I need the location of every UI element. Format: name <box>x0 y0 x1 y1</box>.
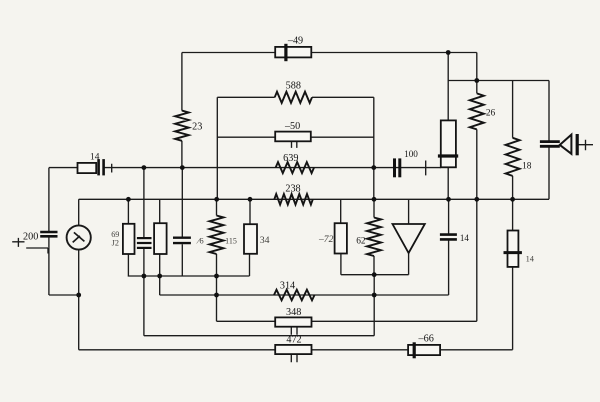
svg-text:100: 100 <box>404 149 418 159</box>
svg-text:14: 14 <box>460 233 470 243</box>
svg-text:62: 62 <box>356 237 366 247</box>
svg-text:238: 238 <box>285 184 300 195</box>
svg-text:–49: –49 <box>287 36 303 47</box>
svg-text:348: 348 <box>286 307 301 318</box>
svg-text:–66: –66 <box>418 334 434 345</box>
svg-text:588: 588 <box>286 81 301 92</box>
svg-text:–50: –50 <box>284 121 300 132</box>
svg-text:115: 115 <box>225 237 237 246</box>
svg-text:314: 314 <box>280 281 295 292</box>
svg-text:18: 18 <box>522 162 532 172</box>
svg-text:14: 14 <box>526 255 535 264</box>
svg-text:14: 14 <box>90 153 100 163</box>
svg-text:472: 472 <box>286 335 301 346</box>
svg-text:200: 200 <box>23 231 38 242</box>
svg-text:639: 639 <box>283 153 298 164</box>
svg-text:26: 26 <box>486 109 496 119</box>
svg-text:34: 34 <box>260 235 270 246</box>
svg-text:23: 23 <box>192 122 202 133</box>
svg-text:J2: J2 <box>112 238 119 247</box>
svg-text:–72: –72 <box>318 234 334 245</box>
svg-text:⁄6: ⁄6 <box>196 235 204 245</box>
